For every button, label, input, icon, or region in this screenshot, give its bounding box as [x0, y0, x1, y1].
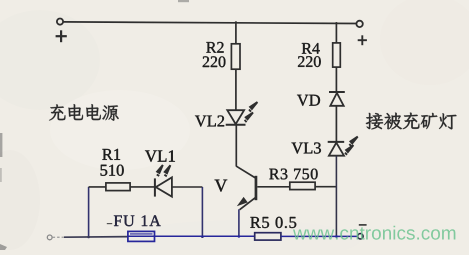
node emitter junction [238, 235, 241, 238]
label 220 (R2 value) [203, 56, 226, 67]
node charger negative (faint) [47, 235, 64, 240]
node top rail R4 junction [335, 22, 337, 24]
scan smudges [0, 0, 189, 250]
label + (lamp plus) [358, 35, 367, 45]
watermark www.cntronics.com [293, 226, 455, 240]
node VL3 junction [335, 235, 338, 238]
VL3 light arrows [345, 137, 358, 155]
wire right vertical of VL1 loop [201, 187, 203, 237]
LED VL1 [155, 177, 172, 196]
label + (charger plus) [56, 30, 67, 42]
resistor R3 [290, 182, 315, 189]
wire transistor emitter [238, 209, 240, 236]
label 接被充矿灯 (to miner lamp being charged) [366, 113, 457, 130]
label VL3 [292, 143, 321, 154]
VL1 light arrows [157, 165, 171, 176]
node VL1 loop bottom junction [201, 235, 204, 238]
resistor R1 [106, 183, 130, 191]
wire R4 top lead [335, 23, 337, 43]
label R3 750 [269, 169, 317, 180]
wire R1 to VL1 [130, 186, 155, 188]
fuse FU 1A [128, 231, 155, 241]
wire R2 top lead [235, 23, 237, 45]
wire bottom rail right [281, 235, 358, 237]
label 充电电源 (charging power source) [49, 104, 119, 121]
wire transistor base to R3 [257, 186, 290, 188]
resistor R5 [255, 233, 281, 240]
wire left branch vertical [88, 187, 90, 238]
label 510 (R1 value) [101, 165, 124, 176]
node right positive terminal [356, 21, 362, 27]
wire VL2 to transistor collector [235, 125, 237, 167]
label R1 [102, 149, 120, 160]
wire bottom rail left [64, 236, 128, 239]
label R5 0.5 [250, 217, 296, 228]
node top rail R2 junction [235, 21, 237, 23]
wire VL1 to right vertical [172, 186, 203, 188]
node left branch bottom junction [87, 236, 90, 239]
label R2 [206, 42, 223, 53]
node lamp negative terminal [358, 234, 363, 239]
node left positive terminal [57, 19, 63, 25]
wire R2 to VL2 [235, 69, 237, 110]
diode VD [329, 92, 345, 106]
wire VD to VL3 [335, 106, 337, 142]
LED VL2 [226, 110, 246, 125]
wire VL3 down to bottom rail [335, 156, 337, 238]
wire bottom rail center [155, 235, 255, 237]
VL2 light arrows [245, 102, 258, 122]
wire to R1 [89, 186, 107, 188]
wire top rail [63, 22, 356, 24]
wire R3 to right branch [315, 186, 336, 188]
label VL1 [145, 150, 175, 162]
label R4 [302, 43, 320, 54]
label VD [297, 95, 320, 106]
LED VL3 [328, 142, 345, 156]
label VL2 [195, 116, 224, 127]
transistor V (NPN) [236, 166, 257, 210]
resistor R4 [333, 43, 341, 67]
label minus [359, 224, 367, 226]
label 220 (R4 value) [298, 56, 321, 67]
wire R4 to VD [335, 67, 337, 92]
resistor R2 [231, 44, 240, 69]
label V [215, 180, 228, 192]
label FU 1A [107, 223, 112, 225]
